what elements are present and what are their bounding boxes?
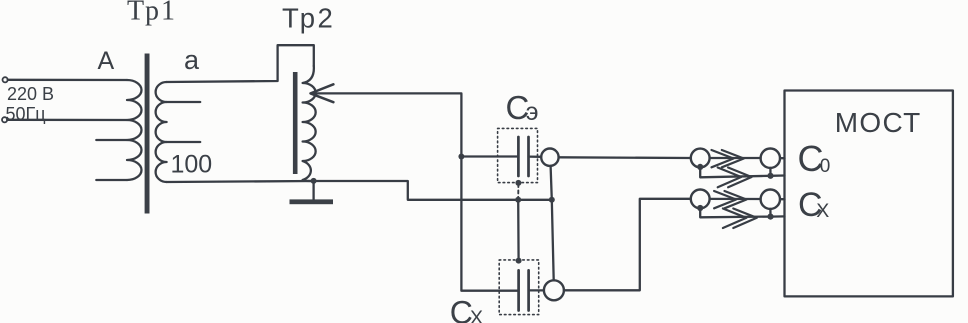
svg-text:Х: Х <box>470 307 483 323</box>
svg-text:МОСТ: МОСТ <box>835 107 922 138</box>
wire secondary tap stub lower <box>167 141 201 143</box>
connector row1 right circle <box>761 149 780 168</box>
svg-text:100: 100 <box>171 151 213 179</box>
capacitor Ce shield box <box>498 128 538 182</box>
node row2 right shell <box>767 214 773 220</box>
terminal input 220V <box>3 77 8 82</box>
wire shield dashed link <box>517 184 519 199</box>
svg-text:А: А <box>98 47 115 75</box>
wire a-terminal to T2 top <box>167 45 314 82</box>
transformer T1 primary winding <box>127 80 142 180</box>
svg-text:50Гц: 50Гц <box>6 104 46 124</box>
svg-text:а: а <box>184 45 200 75</box>
svg-text:Тр1: Тр1 <box>127 0 177 26</box>
wire input top <box>8 79 127 81</box>
node row1 left shell <box>697 164 703 170</box>
cable row2 shield chevron 1 <box>723 209 747 229</box>
cable row1 chevron 2 <box>722 150 744 167</box>
connector row2 right circle <box>761 190 780 209</box>
node Ce shield on box <box>515 180 521 186</box>
node Cx shield on box <box>516 258 522 264</box>
svg-text:Х: Х <box>816 200 829 222</box>
node shield on bus right <box>549 197 555 203</box>
wire row2 main <box>710 198 761 200</box>
svg-text:э: э <box>526 98 539 126</box>
wire primary tap stub upper <box>96 139 127 141</box>
connector row1 left circle <box>691 149 710 168</box>
node T2 bottom junction <box>311 178 317 184</box>
terminal input 50Hz <box>2 117 7 122</box>
svg-text:0: 0 <box>820 156 831 177</box>
svg-text:Тр2: Тр2 <box>282 3 335 34</box>
wire T2 bottom bus to ground step <box>167 181 552 200</box>
wire row1 main <box>710 157 761 159</box>
wire Cx right lead <box>529 289 544 291</box>
wire tap to junction column <box>312 93 519 290</box>
wire input bottom <box>7 119 127 121</box>
connector Cx output <box>544 280 564 300</box>
wire junction to Ce <box>461 155 518 157</box>
cable row1 chevron 1 <box>712 150 734 167</box>
cable row2 shield chevron 2 <box>733 209 757 229</box>
transformer T2 core <box>293 72 298 174</box>
cable row1 shield chevron 1 <box>718 168 742 188</box>
node row1 right shell <box>767 173 773 179</box>
wire primary tap stub lower <box>96 179 127 181</box>
node shield on bus left <box>515 197 521 203</box>
transformer T2 winding <box>303 66 316 181</box>
wire row2 shield path <box>700 209 784 218</box>
connector row2 left circle <box>691 190 710 209</box>
wire row1 right shell stub <box>769 168 771 176</box>
cable row2 chevron 1 <box>714 191 736 208</box>
wire row2 into bridge <box>780 198 785 200</box>
ground <box>290 199 334 204</box>
wire row1 into bridge <box>780 157 785 159</box>
connector Ce output <box>541 149 558 166</box>
transformer T1 secondary winding <box>156 82 167 182</box>
bridge box MOCT <box>785 91 953 297</box>
capacitor Cx shield box <box>499 260 539 315</box>
node tap junction <box>458 154 464 160</box>
wire bus to Cx shield box <box>517 200 520 261</box>
wire connector shells link <box>551 166 554 280</box>
wire Ce right lead <box>529 155 542 157</box>
svg-text:220 В: 220 В <box>7 84 54 104</box>
wire ground lead <box>312 183 314 199</box>
wire Ce output to connector row1 <box>559 156 691 159</box>
node row2 left shell <box>697 205 703 211</box>
T2 tap arrow <box>311 84 334 102</box>
transformer T1 core <box>145 54 150 214</box>
capacitor Ce plates <box>518 137 528 176</box>
wire Cx output to connector row2 <box>564 199 691 290</box>
wire row2 right shell stub <box>769 209 771 217</box>
wire row1 shield path <box>700 168 784 178</box>
cable row1 shield chevron 2 <box>728 168 752 188</box>
wire secondary tap stub upper <box>167 101 201 103</box>
cable row2 chevron 2 <box>725 191 747 208</box>
capacitor Cx plates <box>519 270 529 310</box>
